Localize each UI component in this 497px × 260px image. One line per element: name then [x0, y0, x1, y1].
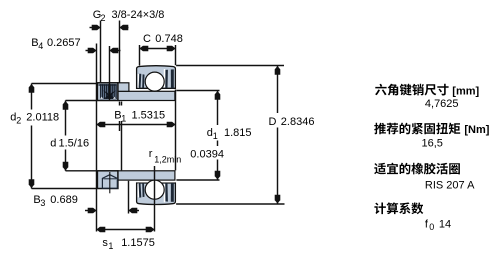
svg-text:[Nm]: [Nm]	[464, 124, 489, 136]
svg-text:1.5/16: 1.5/16	[59, 138, 90, 150]
svg-text:D: D	[269, 116, 277, 128]
svg-text:r: r	[149, 148, 153, 160]
svg-text:16,5: 16,5	[422, 137, 443, 149]
svg-text:C: C	[143, 33, 151, 45]
svg-text:2.8346: 2.8346	[281, 116, 315, 128]
svg-text:d: d	[50, 138, 56, 150]
svg-text:0.0394: 0.0394	[190, 149, 224, 161]
svg-text:RIS 207 A: RIS 207 A	[425, 179, 475, 191]
svg-text:1.5315: 1.5315	[132, 110, 166, 122]
svg-text:1: 1	[121, 114, 126, 124]
svg-text:4: 4	[38, 41, 43, 51]
svg-text:0.689: 0.689	[50, 194, 78, 206]
svg-text:2: 2	[101, 13, 106, 23]
svg-text:[mm]: [mm]	[452, 85, 479, 97]
svg-text:0.2657: 0.2657	[47, 37, 81, 49]
svg-text:2.0118: 2.0118	[26, 111, 59, 123]
svg-text:1.1575: 1.1575	[121, 237, 155, 249]
svg-text:1,2min: 1,2min	[154, 155, 181, 165]
svg-text:2: 2	[16, 116, 21, 126]
svg-text:14: 14	[439, 218, 451, 230]
svg-text:1: 1	[108, 241, 113, 251]
svg-text:4,7625: 4,7625	[425, 98, 459, 110]
svg-text:0: 0	[429, 222, 434, 232]
svg-text:1: 1	[213, 131, 218, 141]
svg-text:3/8-24×3/8: 3/8-24×3/8	[112, 9, 165, 21]
svg-text:3: 3	[40, 198, 45, 208]
svg-text:1.815: 1.815	[224, 127, 252, 139]
svg-text:0.748: 0.748	[155, 33, 183, 45]
